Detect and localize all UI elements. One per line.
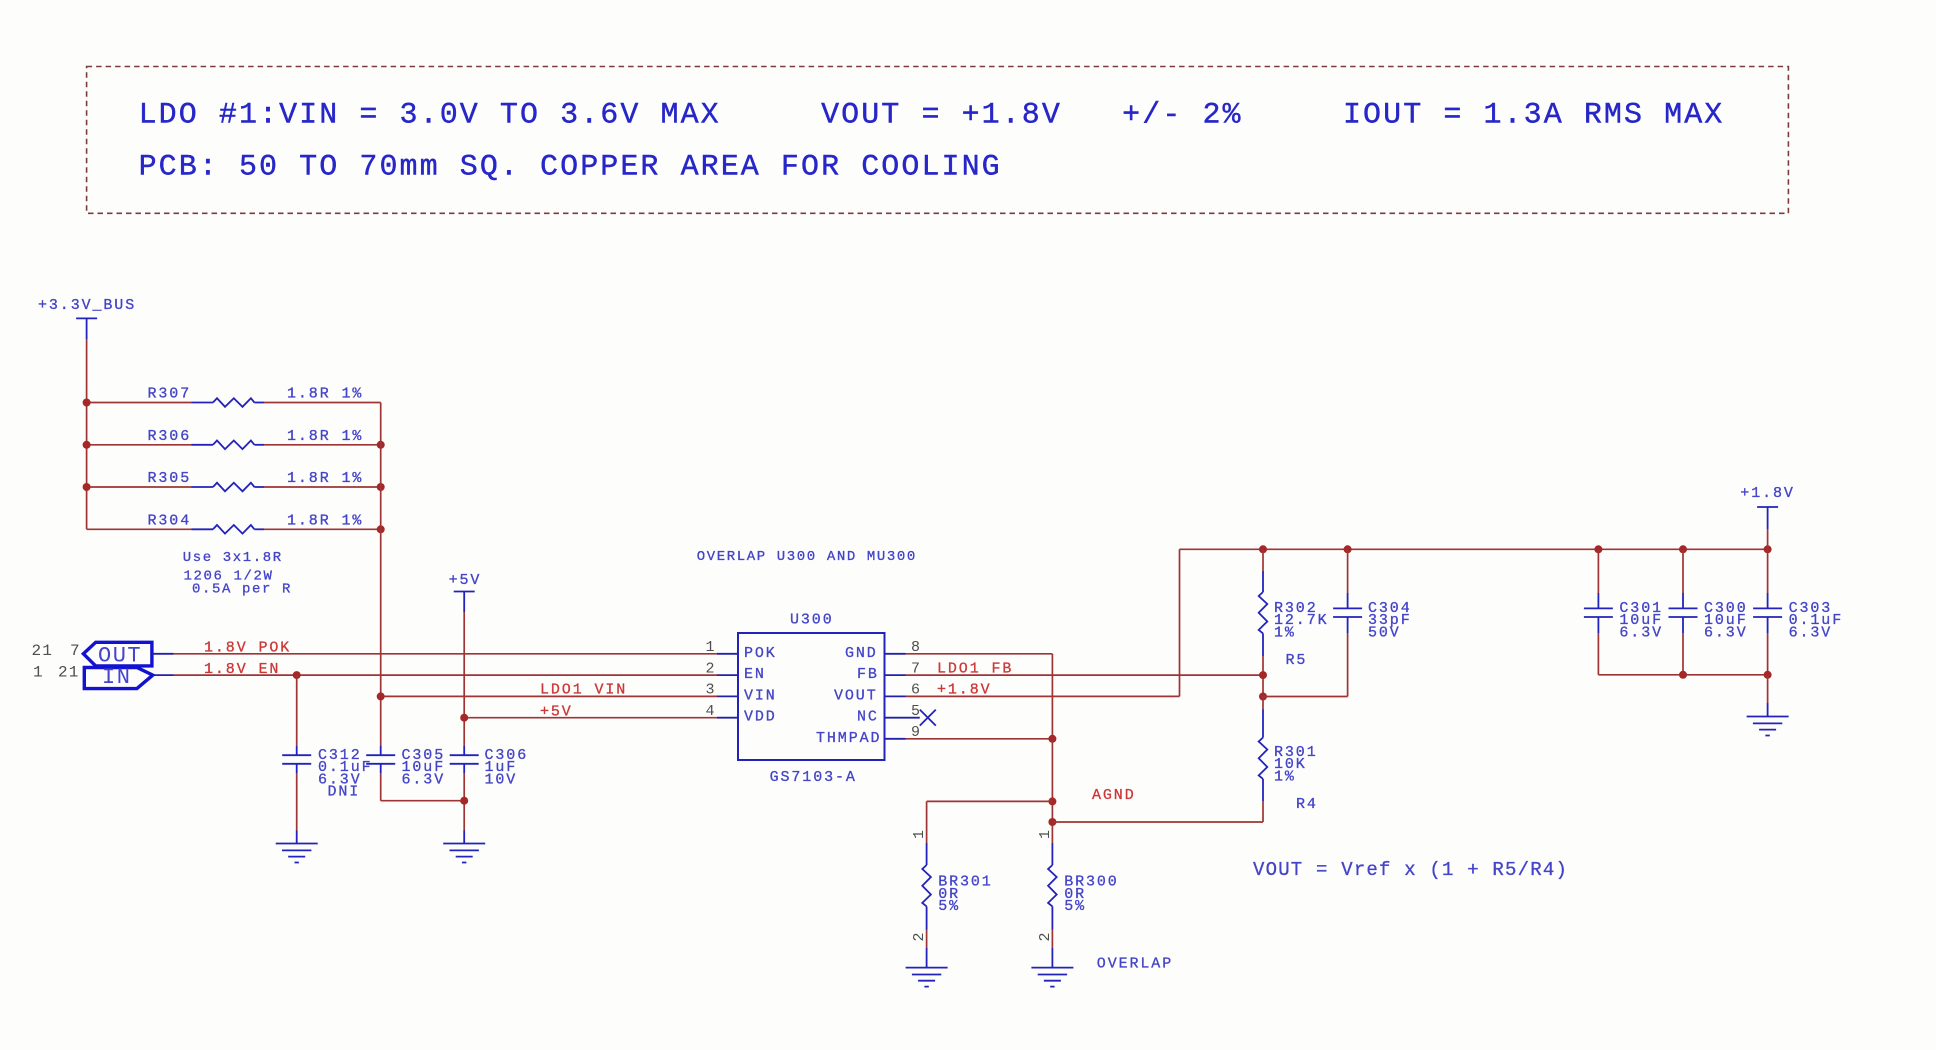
svg-text:1.8R 1%: 1.8R 1% xyxy=(287,470,363,487)
svg-text:5%: 5% xyxy=(1064,898,1086,915)
svg-text:OVERLAP: OVERLAP xyxy=(1097,956,1173,973)
resistor R302 xyxy=(1259,549,1268,696)
svg-text:1: 1 xyxy=(1037,828,1054,839)
capacitor C306 xyxy=(450,746,479,844)
ground BR301 xyxy=(906,968,948,987)
junction FB xyxy=(1259,671,1267,679)
wire R304 row right xyxy=(264,528,381,530)
resistor R306 xyxy=(192,441,265,450)
wire R306 row left xyxy=(87,444,192,446)
wire VOUT pin6 xyxy=(906,695,1180,697)
wire +1.8V top rail xyxy=(1180,548,1768,550)
wire out-cap bottom rail xyxy=(1598,674,1767,676)
svg-text:LDO1 FB: LDO1 FB xyxy=(937,661,1013,678)
resistor BR301 xyxy=(922,843,931,968)
resistor R304 xyxy=(192,525,265,534)
svg-text:THMPAD: THMPAD xyxy=(816,730,881,747)
svg-text:1: 1 xyxy=(706,639,717,656)
svg-text:R307: R307 xyxy=(148,386,192,403)
resistor R305 xyxy=(192,483,265,492)
svg-text:2: 2 xyxy=(706,660,717,677)
svg-text:+1.8V: +1.8V xyxy=(937,682,992,699)
wire stub OUT xyxy=(152,653,174,655)
junction rail C304 xyxy=(1344,545,1352,553)
capacitor C305 xyxy=(366,746,395,801)
ground C306 xyxy=(443,844,485,863)
junction dots right bus xyxy=(377,441,385,449)
svg-text:R305: R305 xyxy=(148,470,192,487)
svg-text:1.8V POK: 1.8V POK xyxy=(204,640,291,657)
svg-text:NC: NC xyxy=(857,709,879,726)
svg-text:+5V: +5V xyxy=(449,572,482,589)
svg-text:6.3V: 6.3V xyxy=(1789,624,1833,641)
svg-text:2: 2 xyxy=(911,931,928,942)
svg-text:VOUT = Vref x (1 + R5/R4): VOUT = Vref x (1 + R5/R4) xyxy=(1253,859,1568,881)
svg-text:2: 2 xyxy=(1037,931,1054,942)
svg-text:FB: FB xyxy=(857,666,879,683)
svg-text:6.3V: 6.3V xyxy=(1619,624,1663,641)
svg-text:1.8V EN: 1.8V EN xyxy=(204,661,280,678)
wire C303 to ground xyxy=(1767,675,1769,717)
wire R305 row right xyxy=(264,486,381,488)
svg-text:AGND: AGND xyxy=(1092,787,1136,804)
svg-text:1%: 1% xyxy=(1274,624,1296,641)
wire C305 bottom to C306 xyxy=(381,800,465,802)
capacitor C303 xyxy=(1753,549,1782,675)
junction C306 bottom xyxy=(460,797,468,805)
capacitor C301 xyxy=(1584,549,1613,675)
junction bottom C303 xyxy=(1764,671,1772,679)
wire stub IN xyxy=(153,674,174,676)
svg-text:DNI: DNI xyxy=(328,784,361,801)
svg-text:5: 5 xyxy=(911,703,922,720)
wire GND pin8 xyxy=(906,653,1053,655)
junction bottom C300 xyxy=(1679,671,1687,679)
svg-text:VOUT: VOUT xyxy=(834,687,878,704)
svg-text:5%: 5% xyxy=(938,898,960,915)
wire VOUT up xyxy=(1179,549,1181,696)
pin stubs right xyxy=(885,653,906,655)
svg-text:R4: R4 xyxy=(1296,796,1318,813)
svg-text:3: 3 xyxy=(706,682,717,699)
capacitor C312 xyxy=(282,675,311,843)
junction R302/R301 xyxy=(1259,693,1267,701)
junction EN/C312 xyxy=(293,671,301,679)
junction rail C301 xyxy=(1594,545,1602,553)
svg-text:10V: 10V xyxy=(485,771,518,788)
svg-text:50V: 50V xyxy=(1368,624,1401,641)
junction rail C300 xyxy=(1679,545,1687,553)
svg-text:7: 7 xyxy=(70,642,81,660)
junction +5V xyxy=(460,714,468,722)
svg-text:1.8R 1%: 1.8R 1% xyxy=(287,428,363,445)
port OUT xyxy=(83,642,151,668)
ground C312 xyxy=(276,844,318,863)
svg-text:1: 1 xyxy=(33,664,44,682)
junction rail R302 xyxy=(1259,545,1267,553)
junction THMPAD xyxy=(1048,735,1056,743)
power symbol +1.8V xyxy=(1757,507,1778,549)
power symbol +3.3V_BUS xyxy=(76,318,97,339)
svg-text:6.3V: 6.3V xyxy=(402,771,446,788)
wire BR301 top xyxy=(926,801,928,843)
ground output caps xyxy=(1747,717,1789,736)
svg-text:0.5A per R: 0.5A per R xyxy=(192,581,292,597)
wire 1.8V EN xyxy=(174,674,718,676)
junction AGND 2 xyxy=(1048,818,1056,826)
svg-text:1%: 1% xyxy=(1274,768,1296,785)
resistor R301 xyxy=(1259,697,1268,823)
wire LDO1 VIN xyxy=(381,695,717,697)
junction rail C303 xyxy=(1764,545,1772,553)
svg-text:GS7103-A: GS7103-A xyxy=(770,769,857,786)
wire AGND to BR301 xyxy=(927,800,1053,802)
power symbol +5V xyxy=(454,592,475,613)
svg-text:U300: U300 xyxy=(790,612,834,629)
svg-text:Use 3x1.8R: Use 3x1.8R xyxy=(183,550,283,566)
capacitor C300 xyxy=(1669,549,1698,675)
resistor R307 xyxy=(192,398,265,407)
svg-text:LDO #1:VIN = 3.0V TO 3.6V MAX: LDO #1:VIN = 3.0V TO 3.6V MAX VOUT = +1.… xyxy=(139,98,1725,132)
svg-text:GND: GND xyxy=(845,645,878,662)
svg-text:VDD: VDD xyxy=(744,709,777,726)
svg-text:OVERLAP U300 AND MU300: OVERLAP U300 AND MU300 xyxy=(697,549,917,565)
wire right bus vertical down to C305 xyxy=(380,403,382,747)
svg-text:R304: R304 xyxy=(148,512,192,529)
svg-text:EN: EN xyxy=(744,666,766,683)
op-amp U300 IC body xyxy=(738,633,885,760)
port IN xyxy=(84,665,153,690)
wire R305 row left xyxy=(87,486,192,488)
svg-text:+3.3V_BUS: +3.3V_BUS xyxy=(38,297,136,314)
wire +3.3V_BUS vertical xyxy=(86,339,88,529)
svg-text:4: 4 xyxy=(706,703,717,720)
wire +5V to VDD xyxy=(464,717,717,719)
wire R307 row right xyxy=(264,402,381,404)
pin stubs left xyxy=(717,653,738,655)
svg-text:21: 21 xyxy=(58,664,80,682)
wire THMPAD pin9 xyxy=(906,738,1053,740)
svg-text:+5V: +5V xyxy=(540,704,573,721)
svg-text:1.8R 1%: 1.8R 1% xyxy=(287,512,363,529)
svg-text:R5: R5 xyxy=(1286,652,1308,669)
svg-text:6.3V: 6.3V xyxy=(1704,624,1748,641)
svg-text:21: 21 xyxy=(32,642,54,660)
svg-text:PCB: 50 TO 70mm SQ. COPPER ARE: PCB: 50 TO 70mm SQ. COPPER AREA FOR COOL… xyxy=(139,150,1002,184)
ground BR300 xyxy=(1031,968,1073,987)
junction dots left bus xyxy=(83,399,91,407)
wire GND down xyxy=(1051,654,1053,739)
svg-text:1.8R 1%: 1.8R 1% xyxy=(287,386,363,403)
svg-text:IN: IN xyxy=(102,665,131,690)
wire C304 bottom to FB node xyxy=(1263,696,1348,698)
title note dashed border box xyxy=(87,67,1789,214)
wire AGND vertical xyxy=(1051,739,1053,843)
svg-text:R306: R306 xyxy=(148,428,192,445)
svg-text:VIN: VIN xyxy=(744,687,777,704)
svg-text:1: 1 xyxy=(911,828,928,839)
svg-text:+1.8V: +1.8V xyxy=(1740,485,1795,502)
wire R307 row left xyxy=(87,402,192,404)
junction VIN xyxy=(377,692,385,700)
wire FB pin7 xyxy=(906,674,1264,676)
resistor BR300 xyxy=(1048,843,1057,968)
wire R301 bottom row xyxy=(1052,821,1263,823)
no-connect X on pin 5 xyxy=(920,710,936,726)
wire R304 row left xyxy=(87,528,192,530)
wire +5V vertical xyxy=(463,612,465,746)
junction AGND 1 xyxy=(1048,797,1056,805)
wire R306 row right xyxy=(264,444,381,446)
svg-text:LDO1 VIN: LDO1 VIN xyxy=(540,682,627,699)
wire 1.8V POK xyxy=(174,653,718,655)
capacitor C304 xyxy=(1333,549,1362,696)
svg-text:POK: POK xyxy=(744,645,777,662)
